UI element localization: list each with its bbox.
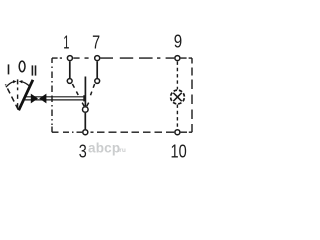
mechanical link end bar: [83, 95, 85, 101]
svg-text:3: 3: [79, 141, 87, 161]
pivot circle: [83, 107, 89, 113]
travel arc right with arrowhead: [22, 82, 29, 86]
dashed position line II (contact 7 to pivot): [87, 84, 95, 106]
enclosure border top (dash-dot): [52, 57, 192, 59]
lever (actuator): [19, 80, 33, 111]
wire pivot down to terminal 3: [84, 113, 86, 129]
enclosure border bottom (dash-dot): [52, 131, 192, 133]
svg-text:1: 1: [63, 32, 69, 52]
terminal 1 circle: [67, 56, 72, 61]
fixed contact 7 circle: [95, 79, 100, 84]
moving contact arm (position 0): [84, 77, 86, 107]
svg-text:9: 9: [174, 32, 182, 52]
position label I: [8, 64, 10, 74]
lamp X cross: [173, 93, 181, 101]
watermark abcp.ru: [88, 141, 126, 156]
svg-text:7: 7: [92, 32, 100, 52]
terminal 3 circle: [83, 130, 88, 135]
terminal 7 circle: [95, 56, 100, 61]
travel arc left with arrowhead: [6, 82, 14, 87]
enclosure border right (dash-dot): [191, 58, 193, 132]
svg-text:10: 10: [171, 142, 187, 162]
lamp (illumination) dashed circle: [170, 89, 186, 105]
dashed wire lamp to terminal 10: [176, 105, 178, 129]
fan middle dashed line: [17, 88, 19, 108]
wire terminal 7 down to fixed contact 7: [96, 61, 98, 78]
mechanical link double line: [25, 97, 85, 100]
terminal 10 circle: [175, 130, 180, 135]
svg-text:abcp: abcp: [88, 141, 120, 156]
svg-text:.ru: .ru: [118, 147, 126, 154]
dashed wire terminal 9 to lamp: [176, 62, 178, 90]
fan left dashed edge: [5, 84, 18, 109]
terminal 9 circle: [175, 56, 180, 61]
wire terminal 1 down to fixed contact 1: [69, 61, 71, 78]
dashed position line I (contact 1 to pivot): [72, 84, 84, 106]
center tick above fan: [17, 79, 19, 84]
fixed contact 1 circle: [67, 79, 72, 84]
position label II: [32, 65, 34, 75]
enclosure border left (dash-dot): [51, 58, 53, 132]
position label 0: [19, 61, 25, 72]
detent symbol (bow-tie): [31, 94, 47, 104]
